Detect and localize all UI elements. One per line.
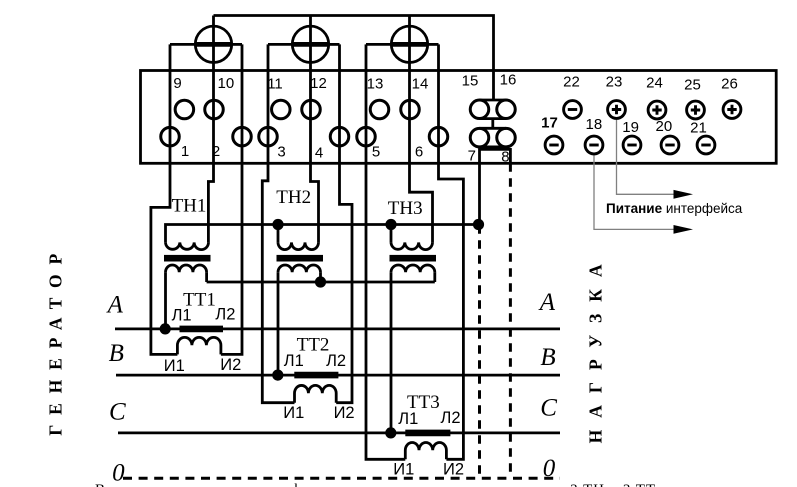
fuse F3 [366,26,439,62]
svg-text:Л1: Л1 [398,410,418,428]
wire terminal7 down [478,147,481,225]
wire TH secondary bus [207,281,435,284]
link terminals 15 16 [470,100,515,119]
svg-text:3: 3 [277,144,285,161]
junction dot TH3 primary [385,219,396,230]
svg-text:8: 8 [501,149,509,166]
svg-text:ТН1: ТН1 [172,196,207,217]
svg-text:Л1: Л1 [284,352,304,370]
svg-text:21: 21 [690,120,707,137]
svg-text:И2: И2 [220,356,241,374]
svg-text:18: 18 [586,116,603,133]
svg-text:6: 6 [415,144,423,161]
terminal 18 minus [585,136,603,154]
svg-text:0: 0 [543,455,556,482]
svg-text:Питание интерфейса: Питание интерфейса [606,201,743,216]
terminal 21 minus [697,136,715,154]
wire terminal10 to TH1 primary [208,16,213,243]
current transformer TT1 [177,329,223,355]
terminal 25 plus [687,101,705,119]
current transformer TT3 [405,433,450,459]
svg-text:5: 5 [372,144,380,161]
terminal 22 minus [564,101,582,119]
svg-text:ГЕНЕРАТОР: ГЕНЕРАТОР [45,254,65,436]
svg-text:20: 20 [656,118,673,135]
wire TH primary bus [166,225,479,243]
terminal 3 [259,127,278,146]
svg-text:ТН2: ТН2 [276,187,311,208]
wire top bus [214,16,494,101]
wire interface power from 18 [594,153,693,234]
terminal 10 [205,100,224,119]
voltage transformer TH2 [277,225,324,376]
svg-text:И1: И1 [283,404,304,422]
svg-text:12: 12 [310,75,327,92]
terminal 14 [401,100,420,119]
svg-text:4: 4 [315,145,323,162]
svg-text:И2: И2 [334,404,355,422]
voltage transformer TH1 [164,242,211,329]
wire terminal2 to TT1 I2 [221,44,242,354]
terminal 26 plus [723,101,741,119]
svg-text:13: 13 [367,76,384,93]
svg-text:B: B [540,344,555,371]
svg-text:C: C [540,394,557,421]
svg-text:И2: И2 [443,460,464,478]
terminal 2 [233,127,252,146]
svg-text:16: 16 [500,72,517,89]
terminal 13 [370,100,389,119]
svg-text:24: 24 [646,75,663,92]
terminal 6 [429,127,448,146]
svg-text:ТН3: ТН3 [388,198,423,219]
fuse F2 [268,26,340,62]
terminal box of meter [141,71,777,164]
junction dot phase A [160,323,171,334]
svg-text:9: 9 [173,75,181,92]
svg-text:25: 25 [684,77,701,94]
svg-text:7: 7 [468,148,476,165]
wire dashed neutral from terminal8 [509,163,512,478]
svg-text:10: 10 [218,75,235,92]
svg-text:A: A [106,291,124,318]
junction dot bus right [473,219,484,230]
svg-text:Л1: Л1 [172,307,192,325]
voltage transformer TH3 [390,225,437,433]
terminal 24 plus [648,101,666,119]
svg-text:2: 2 [212,143,220,160]
fuse F1 [170,26,242,62]
svg-text:11: 11 [267,76,283,93]
svg-text:Л2: Л2 [440,409,460,427]
junction dot phase B [272,370,283,381]
svg-text:A: A [538,289,556,316]
wire terminal3 to TT2 I1 [262,44,294,402]
svg-text:И1: И1 [164,357,185,375]
terminal 11 [272,100,291,119]
terminal 17 minus [545,136,563,154]
wire terminal1 to TT1 I1 [151,44,178,354]
terminal 23 plus [608,101,626,119]
svg-text:Включение счетчика в трехфазну: Включение счетчика в трехфазную четырехп… [95,482,655,487]
link terminals 7 8 [470,128,515,147]
current transformer TT2 [294,375,338,403]
terminal 20 minus [661,136,679,154]
svg-text:B: B [109,340,124,367]
wire terminal5 to TT3 I1 [366,44,405,459]
wire terminal14 to TH3 primary [410,16,433,243]
svg-text:Л2: Л2 [215,306,235,324]
terminal 9 [175,100,194,119]
junction dot TH2 primary [272,219,283,230]
wire terminal6 to TT3 I2 [439,44,464,459]
junction dot phase C [385,427,396,438]
terminal 19 minus [623,136,641,154]
svg-text:17: 17 [541,115,558,132]
svg-text:Л2: Л2 [326,352,346,370]
wire dashed neutral from terminal7 [478,225,481,478]
phase line C [118,431,560,434]
svg-text:15: 15 [462,73,479,90]
svg-text:19: 19 [622,119,639,136]
phase line B [116,374,560,377]
wire under links to terminal8 [480,149,511,163]
svg-text:22: 22 [563,74,580,91]
junction dot TH2 secondary [315,276,326,287]
wire terminal4 to TT2 I2 [336,44,352,402]
wire link connector [491,119,494,129]
terminal 4 [330,127,349,146]
phase line A [115,327,560,330]
terminal 1 [161,127,180,146]
svg-text:1: 1 [181,143,189,160]
svg-text:23: 23 [606,74,623,91]
svg-text:14: 14 [412,76,429,93]
wire terminal12 to TH2 primary [311,16,319,243]
svg-text:И1: И1 [393,460,414,478]
wire interface power from 23 [617,118,694,199]
svg-text:C: C [109,399,126,426]
terminal 5 [357,127,376,146]
svg-text:26: 26 [721,76,738,93]
terminal 12 [302,100,321,119]
neutral line 0 dashed [123,477,560,480]
